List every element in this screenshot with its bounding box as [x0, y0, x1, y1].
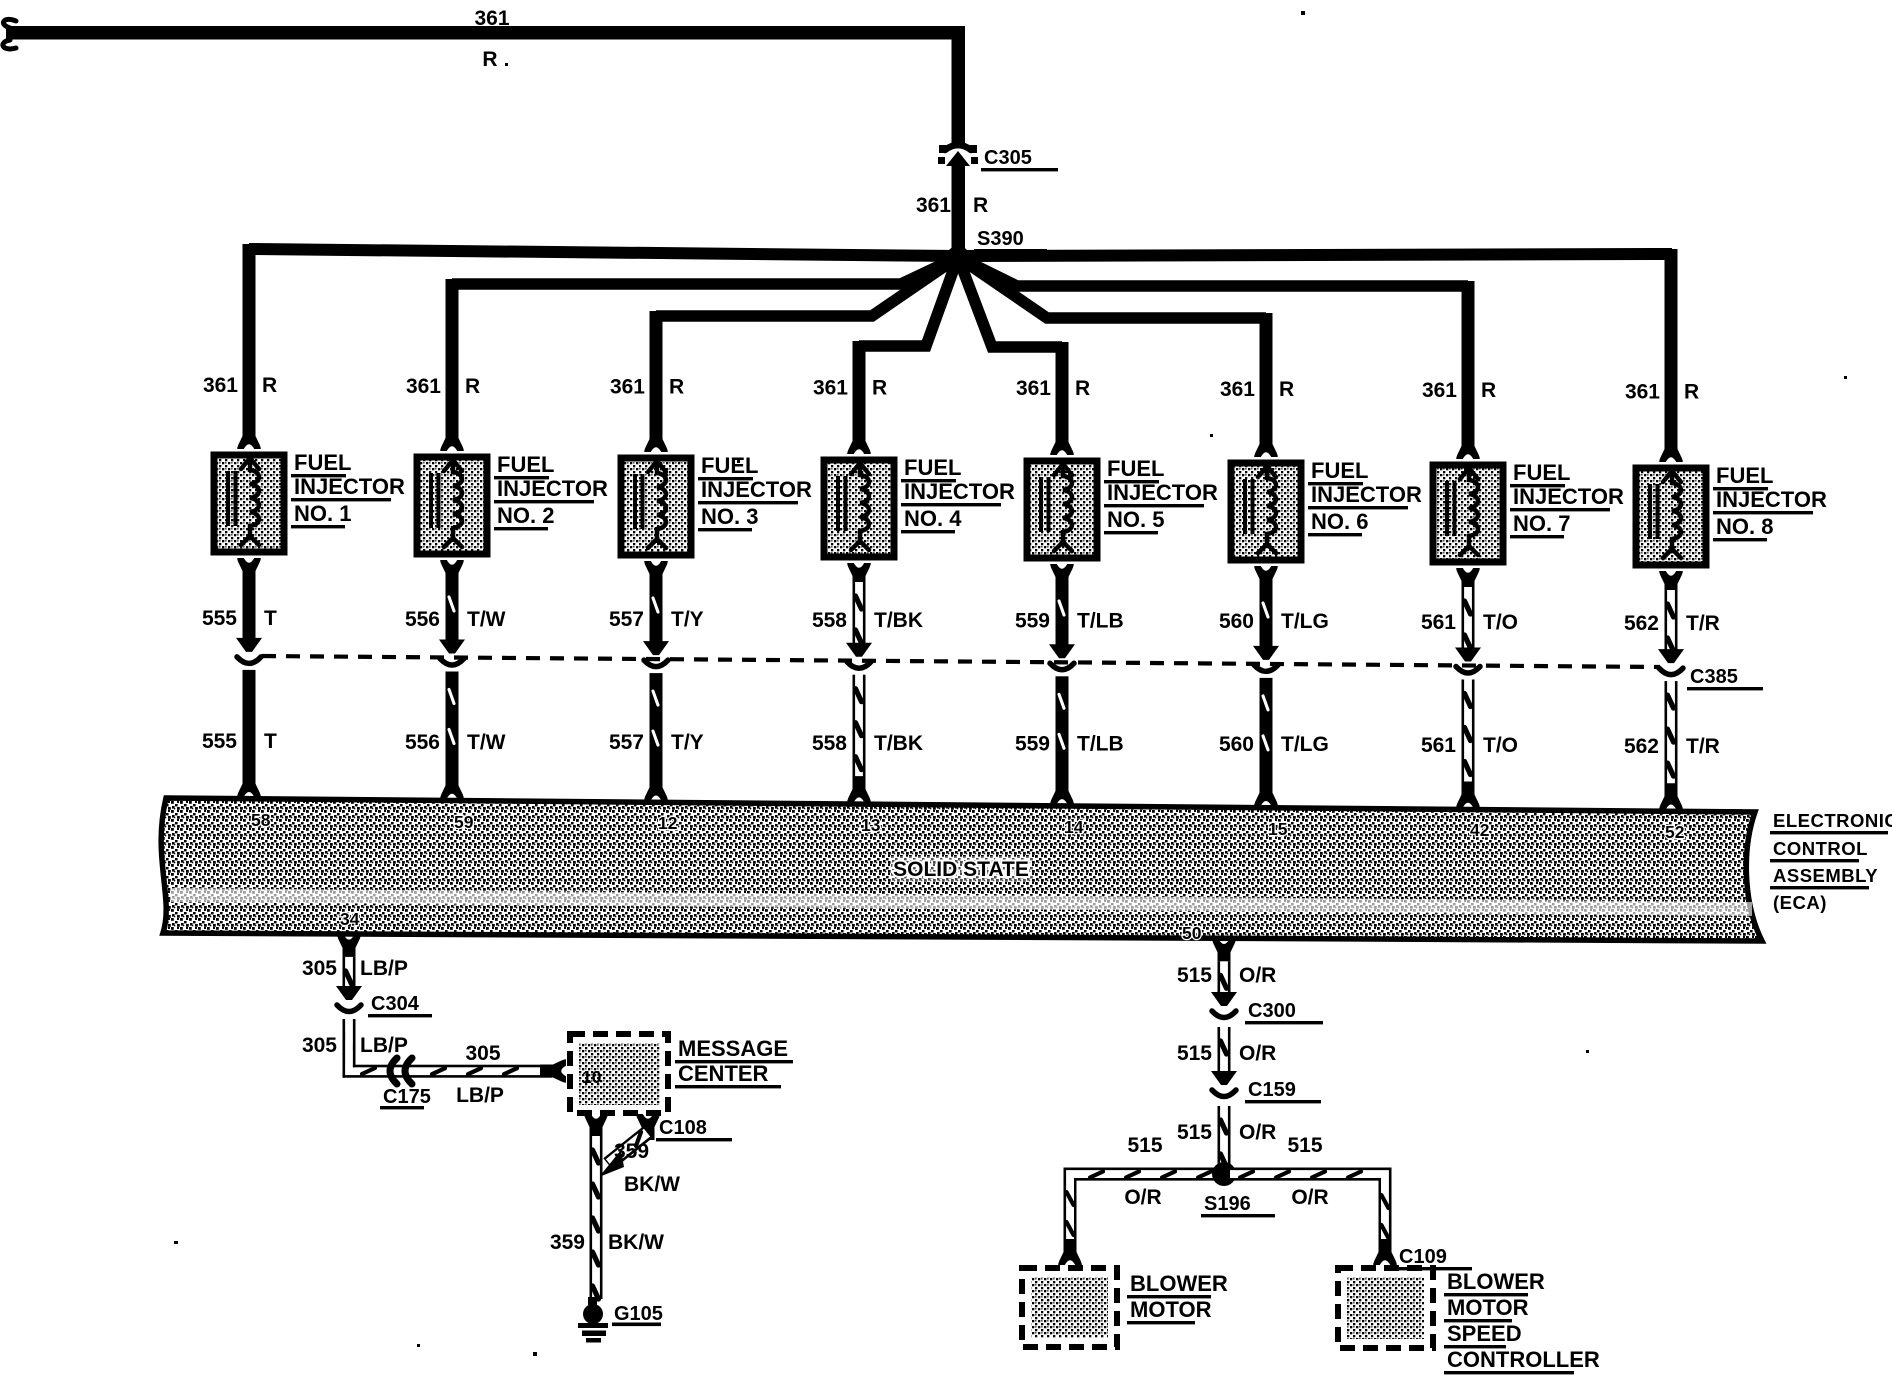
label 515 O/R (2) [1177, 1042, 1276, 1065]
entry foot at fuel injector 6 [1254, 431, 1278, 457]
svg-text:NO. 3: NO. 3 [701, 504, 758, 529]
wire 556 T/W upper segment [446, 579, 459, 642]
wire 555 T upper segment [243, 577, 256, 640]
svg-text:BLOWER: BLOWER [1130, 1271, 1228, 1296]
svg-text:T/LG: T/LG [1281, 733, 1329, 756]
svg-text:562: 562 [1624, 735, 1659, 758]
wire 359 BK/W diagonal from C108 [599, 1126, 653, 1177]
exit foot below fuel injector 4 [847, 563, 871, 589]
svg-text:NO. 8: NO. 8 [1716, 514, 1773, 539]
wire 361 R from C305 to S390 [952, 162, 966, 252]
svg-text:T/O: T/O [1483, 611, 1518, 634]
svg-text:CENTER: CENTER [678, 1061, 769, 1086]
label fuel injector no. 3 [698, 453, 812, 531]
label 305 (horizontal) [465, 1042, 500, 1065]
label 558 T/BK upper [812, 609, 923, 632]
svg-text:O/R: O/R [1239, 1121, 1276, 1144]
svg-text:515: 515 [1177, 964, 1212, 987]
message center box [570, 1034, 668, 1113]
label 361 R at injector 3 [610, 376, 684, 399]
svg-text:NO. 5: NO. 5 [1107, 507, 1164, 532]
wire 361 branch to injector 1 [243, 244, 959, 432]
svg-text:MESSAGE: MESSAGE [678, 1036, 788, 1061]
label O/R right branch [1291, 1186, 1328, 1209]
foot of wire 556 on ECA band [440, 773, 464, 799]
label fuel injector no. 4 [901, 455, 1015, 533]
svg-text:12: 12 [658, 813, 678, 833]
svg-text:361: 361 [474, 7, 509, 30]
svg-text:T/R: T/R [1686, 735, 1720, 758]
svg-text:361: 361 [813, 377, 848, 400]
wire 305 LB/P segment 2 (vertical) [343, 1021, 356, 1065]
svg-text:361: 361 [1016, 377, 1051, 400]
label 515 right branch [1287, 1134, 1322, 1157]
svg-text:O/R: O/R [1239, 1042, 1276, 1065]
svg-text:T: T [264, 607, 277, 630]
svg-text:560: 560 [1219, 733, 1254, 756]
svg-text:MOTOR: MOTOR [1447, 1295, 1529, 1320]
wire 562 T/R lower segment [1665, 681, 1678, 789]
svg-text:557: 557 [609, 731, 644, 754]
entry foot at fuel injector 1 [237, 423, 261, 449]
wire 558 T/BK upper segment [853, 582, 866, 645]
svg-text:305: 305 [302, 957, 337, 980]
label blower motor speed controller [1444, 1269, 1600, 1374]
svg-text:10: 10 [582, 1067, 602, 1087]
label 515 O/R (3) [1177, 1121, 1276, 1144]
svg-text:INJECTOR: INJECTOR [497, 476, 608, 501]
wire 558 T/BK lower segment [853, 675, 866, 782]
label 560 T/LG upper [1219, 610, 1329, 633]
svg-text:556: 556 [405, 731, 440, 754]
svg-text:INJECTOR: INJECTOR [904, 479, 1015, 504]
ECA pin 12 [658, 813, 678, 833]
wire 361 R vertical drop to C305 [952, 26, 966, 143]
dashed line C385 [262, 656, 1660, 667]
svg-text:LB/P: LB/P [360, 1034, 408, 1057]
label 557 T/Y lower [609, 731, 704, 754]
svg-text:557: 557 [609, 608, 644, 631]
label 361 R at injector 4 [813, 377, 887, 400]
wire 556 T/W lower segment [446, 672, 459, 779]
ECA pin 52 [1665, 822, 1685, 842]
message center pin 10 [582, 1067, 602, 1087]
label 562 T/R lower [1624, 735, 1720, 758]
connector C385 crossing at wire 561 [1455, 648, 1481, 674]
svg-text:BK/W: BK/W [608, 1231, 664, 1254]
label R (top) [482, 48, 497, 71]
svg-text:R: R [482, 48, 497, 71]
wire 361 branch to injector 3 [650, 257, 959, 436]
ECA pin 15 [1268, 819, 1288, 839]
wire 361 branch to injector 7 [958, 257, 1475, 442]
svg-text:T/LB: T/LB [1077, 609, 1124, 632]
svg-text:R: R [669, 376, 684, 399]
wire 561 T/O lower segment [1462, 680, 1475, 788]
ground G105 [578, 1297, 608, 1343]
svg-text:T/BK: T/BK [874, 732, 923, 755]
svg-text:FUEL: FUEL [1716, 463, 1773, 488]
label 305 LB/P (1) [302, 957, 408, 980]
label 556 T/W upper [405, 608, 506, 631]
foot of wire 558 on ECA band [847, 776, 871, 802]
label 555 T lower [202, 730, 277, 753]
svg-text:T/W: T/W [467, 731, 506, 754]
stub foot right under message center (C108) [636, 1114, 660, 1140]
connector C385 crossing at wire 562 [1658, 649, 1684, 675]
svg-text:558: 558 [812, 732, 847, 755]
svg-text:CONTROLLER: CONTROLLER [1447, 1347, 1600, 1372]
exit foot below fuel injector 5 [1050, 564, 1074, 590]
label SOLID STATE [890, 856, 1032, 882]
wire 361 branch to injector 8 [958, 249, 1678, 445]
exit foot below fuel injector 6 [1254, 566, 1278, 592]
wire 359 BK/W vertical [590, 1136, 603, 1299]
label G105 [612, 1303, 663, 1326]
wire 515 O/R segment 3 [1218, 1106, 1231, 1167]
connector C159 [1211, 1071, 1237, 1097]
svg-text:BK/W: BK/W [624, 1173, 680, 1196]
svg-text:FUEL: FUEL [1513, 460, 1570, 485]
svg-text:SOLID STATE: SOLID STATE [893, 858, 1029, 881]
connector C175 [390, 1058, 412, 1084]
svg-text:515: 515 [1287, 1134, 1322, 1157]
label 561 T/O upper [1421, 611, 1518, 634]
svg-text:C175: C175 [383, 1086, 431, 1108]
connector C300 [1211, 992, 1237, 1018]
svg-text:ASSEMBLY: ASSEMBLY [1773, 865, 1878, 886]
exit foot below fuel injector 3 [644, 561, 668, 587]
connector C385 crossing at wire 556 [439, 640, 465, 666]
label 359 (diagonal) [614, 1140, 649, 1163]
ECA pin 58 [251, 810, 271, 830]
wire 557 T/Y upper segment [650, 580, 663, 643]
exit foot below fuel injector 2 [440, 560, 464, 586]
wire 361 branch to injector 6 [958, 257, 1273, 441]
label R (mid) [973, 194, 988, 217]
entry foot at blower motor [1058, 1239, 1082, 1265]
label 555 T upper [202, 607, 277, 630]
svg-text:FUEL: FUEL [294, 450, 351, 475]
svg-text:MOTOR: MOTOR [1130, 1297, 1212, 1322]
label 361 R at injector 5 [1016, 377, 1090, 400]
wire 515 O/R left branch [1064, 1168, 1219, 1248]
svg-text:359: 359 [550, 1231, 585, 1254]
entry foot at fuel injector 4 [847, 428, 871, 454]
svg-text:305: 305 [465, 1042, 500, 1065]
wire 515 O/R segment 2 [1218, 1027, 1231, 1073]
ECA pin 13 [861, 815, 881, 835]
label BK/W (diagonal) [624, 1173, 680, 1196]
foot of wire 305 under ECA band [337, 935, 361, 961]
connector C385 crossing at wire 560 [1253, 646, 1279, 672]
label 559 T/LB lower [1015, 732, 1124, 755]
svg-text:C304: C304 [371, 993, 420, 1015]
label 305 LB/P (2) [302, 1034, 408, 1057]
svg-text:359: 359 [614, 1140, 649, 1163]
fuel injector no. 7 box [1433, 465, 1503, 562]
exit foot below fuel injector 8 [1659, 571, 1683, 597]
label 560 T/LG lower [1219, 733, 1329, 756]
foot of wire 562 on ECA band [1659, 783, 1683, 809]
wire 561 T/O upper segment [1462, 587, 1475, 650]
connector C385 crossing at wire 557 [643, 641, 669, 667]
foot of wire 515 under ECA band [1212, 939, 1236, 965]
svg-text:T/Y: T/Y [671, 608, 704, 631]
label C385 [1687, 666, 1763, 690]
svg-text:59: 59 [454, 812, 474, 832]
label O/R left branch [1124, 1186, 1161, 1209]
label fuel injector no. 6 [1308, 458, 1422, 536]
svg-text:515: 515 [1177, 1042, 1212, 1065]
foot of wire 561 on ECA band [1456, 782, 1480, 808]
svg-text:558: 558 [812, 609, 847, 632]
label LB/P (horizontal) [456, 1084, 504, 1107]
entry foot at fuel injector 2 [440, 425, 464, 451]
svg-text:T/Y: T/Y [671, 731, 704, 754]
svg-text:52: 52 [1665, 822, 1685, 842]
ECA band light streak [170, 888, 1752, 916]
svg-text:R: R [1075, 377, 1090, 400]
fuel injector no. 4 box [824, 460, 894, 557]
svg-text:FUEL: FUEL [497, 452, 554, 477]
label 361 R at injector 1 [203, 374, 277, 397]
blower motor speed controller box [1338, 1268, 1433, 1348]
exit foot below fuel injector 1 [237, 558, 261, 584]
svg-text:361: 361 [610, 376, 645, 399]
label C108 [656, 1117, 732, 1141]
wire 305 LB/P horizontal to message center [416, 1065, 552, 1078]
connector C305 [938, 145, 978, 166]
svg-text:LB/P: LB/P [456, 1084, 504, 1107]
svg-text:T/O: T/O [1483, 734, 1518, 757]
label C305 [981, 147, 1058, 171]
fuel injector no. 2 box [417, 457, 487, 554]
label blower motor [1127, 1271, 1228, 1324]
wire 515 O/R segment 1 [1218, 961, 1231, 994]
ECA pin 14 [1064, 817, 1084, 837]
svg-text:LB/P: LB/P [360, 957, 408, 980]
svg-text:NO. 4: NO. 4 [904, 506, 962, 531]
wire 305 LB/P elbow [343, 1019, 417, 1078]
svg-text:562: 562 [1624, 612, 1659, 635]
label 361 R at injector 2 [406, 375, 480, 398]
svg-text:INJECTOR: INJECTOR [1311, 482, 1422, 507]
label 361 R at injector 8 [1625, 381, 1699, 404]
wire 361 branch to injector 4 [853, 257, 959, 441]
wire 515 O/R right branch [1230, 1168, 1392, 1253]
foot of wire 560 on ECA band [1254, 780, 1278, 806]
label C109 [1396, 1246, 1472, 1270]
svg-text:42: 42 [1470, 820, 1490, 840]
svg-text:361: 361 [1220, 378, 1255, 401]
svg-text:C108: C108 [659, 1117, 707, 1139]
label 361 R at injector 7 [1422, 379, 1496, 402]
entry foot at fuel injector 5 [1050, 429, 1074, 455]
svg-text:14: 14 [1064, 817, 1084, 837]
label 515 O/R (1) [1177, 964, 1276, 987]
label 361 R at injector 6 [1220, 378, 1294, 401]
svg-text:C109: C109 [1399, 1246, 1447, 1268]
exit foot below fuel injector 7 [1456, 568, 1480, 594]
wire 555 T lower segment [243, 670, 256, 777]
label 556 T/W lower [405, 731, 506, 754]
label S390 [974, 228, 1047, 252]
svg-text:INJECTOR: INJECTOR [1107, 480, 1218, 505]
ECA pin 59 [454, 812, 474, 832]
wire 560 T/LG upper segment [1260, 585, 1273, 648]
wire 361 branch to injector 5 [958, 257, 1069, 442]
entry foot at message center [540, 1059, 566, 1083]
ECA pin 34 [340, 909, 360, 929]
connector C385 crossing at wire 559 [1049, 644, 1075, 670]
svg-text:556: 556 [405, 608, 440, 631]
svg-text:R: R [1684, 381, 1699, 404]
fuel injector no. 1 box [214, 455, 284, 552]
svg-text:R: R [465, 375, 480, 398]
wire break symbol at left edge [3, 19, 16, 49]
svg-text:R: R [262, 374, 277, 397]
svg-text:560: 560 [1219, 610, 1254, 633]
svg-text:R: R [973, 194, 988, 217]
svg-text:361: 361 [203, 374, 238, 397]
foot of wire 559 on ECA band [1050, 778, 1074, 804]
entry foot at fuel injector 8 [1659, 436, 1683, 462]
wire 559 T/LB lower segment [1056, 676, 1069, 784]
svg-text:(ECA): (ECA) [1773, 892, 1827, 913]
splice S196 node [1212, 1162, 1236, 1186]
label fuel injector no. 5 [1104, 456, 1218, 534]
svg-text:58: 58 [251, 810, 271, 830]
svg-text:FUEL: FUEL [1311, 458, 1368, 483]
svg-text:50: 50 [1182, 923, 1202, 943]
blower motor box [1022, 1268, 1117, 1347]
svg-text:G105: G105 [614, 1303, 663, 1325]
label fuel injector no. 2 [494, 452, 608, 530]
label 359 BK/W [550, 1231, 664, 1254]
svg-text:O/R: O/R [1124, 1186, 1161, 1209]
svg-text:T/LB: T/LB [1077, 732, 1124, 755]
label 558 T/BK lower [812, 732, 923, 755]
svg-text:13: 13 [861, 815, 881, 835]
label 515 left branch [1127, 1134, 1162, 1157]
svg-text:NO. 6: NO. 6 [1311, 509, 1368, 534]
svg-text:NO. 1: NO. 1 [294, 501, 351, 526]
svg-text:561: 561 [1421, 734, 1456, 757]
svg-text:INJECTOR: INJECTOR [701, 477, 812, 502]
svg-text:555: 555 [202, 730, 237, 753]
svg-text:361: 361 [916, 194, 951, 217]
label message center [675, 1036, 793, 1088]
connector C304 [336, 986, 362, 1012]
svg-text:R: R [1481, 379, 1496, 402]
svg-text:561: 561 [1421, 611, 1456, 634]
label 361 (mid) [916, 194, 951, 217]
svg-text:R: R [1279, 378, 1294, 401]
svg-text:555: 555 [202, 607, 237, 630]
svg-text:T/LG: T/LG [1281, 610, 1329, 633]
svg-text:361: 361 [1625, 381, 1660, 404]
label fuel injector no. 8 [1713, 463, 1827, 541]
label S196 [1201, 1193, 1275, 1217]
svg-text:15: 15 [1268, 819, 1288, 839]
wire 559 T/LB upper segment [1056, 583, 1069, 646]
wire 361 R top horizontal feed [6, 26, 965, 40]
label 557 T/Y upper [609, 608, 704, 631]
label 562 T/R upper [1624, 612, 1720, 635]
label fuel injector no. 7 [1510, 460, 1624, 538]
wire 557 T/Y lower segment [650, 673, 663, 780]
foot of wire 555 on ECA band [237, 771, 261, 797]
svg-text:C159: C159 [1248, 1079, 1296, 1101]
svg-text:O/R: O/R [1291, 1186, 1328, 1209]
svg-text:C300: C300 [1248, 1000, 1296, 1022]
label 361 (top) [474, 7, 509, 30]
svg-text:361: 361 [1422, 379, 1457, 402]
connector C385 crossing at wire 555 [236, 638, 262, 664]
label electronic control assembly [1770, 810, 1892, 913]
connector C385 crossing at wire 558 [846, 643, 872, 669]
foot of wire 557 on ECA band [644, 774, 668, 800]
svg-text:C385: C385 [1690, 666, 1738, 688]
svg-text:SPEED: SPEED [1447, 1321, 1522, 1346]
svg-text:559: 559 [1015, 732, 1050, 755]
ECA pin 50 [1182, 923, 1202, 943]
svg-text:FUEL: FUEL [701, 453, 758, 478]
wire 361 branch to injector 2 [446, 257, 959, 435]
svg-text:361: 361 [406, 375, 441, 398]
svg-text:NO. 7: NO. 7 [1513, 511, 1570, 536]
svg-text:INJECTOR: INJECTOR [1716, 487, 1827, 512]
svg-text:T/W: T/W [467, 608, 506, 631]
svg-text:559: 559 [1015, 609, 1050, 632]
svg-text:INJECTOR: INJECTOR [294, 474, 405, 499]
svg-text:C305: C305 [984, 147, 1032, 169]
splice S390 node [946, 246, 970, 270]
label C159 [1245, 1079, 1321, 1103]
stub foot left under message center [584, 1114, 608, 1140]
svg-text:ELECTRONIC: ELECTRONIC [1773, 810, 1892, 831]
connector C109 foot at blower motor speed controller [1373, 1239, 1397, 1265]
svg-text:BLOWER: BLOWER [1447, 1269, 1545, 1294]
label C304 [368, 993, 432, 1017]
fuel injector no. 5 box [1027, 461, 1097, 558]
svg-text:34: 34 [340, 909, 360, 929]
svg-text:515: 515 [1127, 1134, 1162, 1157]
wire 562 T/R upper segment [1665, 590, 1678, 651]
svg-text:S196: S196 [1204, 1193, 1251, 1215]
ECA pin 42 [1470, 820, 1490, 840]
label 559 T/LB upper [1015, 609, 1124, 632]
svg-text:FUEL: FUEL [1107, 456, 1164, 481]
svg-text:INJECTOR: INJECTOR [1513, 484, 1624, 509]
fuel injector no. 6 box [1231, 463, 1301, 560]
fuel injector no. 3 box [621, 458, 691, 555]
svg-text:NO. 2: NO. 2 [497, 503, 554, 528]
svg-text:R: R [872, 377, 887, 400]
label C175 [380, 1086, 431, 1109]
fuel injector no. 8 box [1636, 468, 1706, 565]
svg-text:FUEL: FUEL [904, 455, 961, 480]
wire 560 T/LG lower segment [1260, 678, 1273, 786]
svg-text:T/R: T/R [1686, 612, 1720, 635]
svg-text:S390: S390 [977, 228, 1024, 250]
svg-text:305: 305 [302, 1034, 337, 1057]
entry foot at fuel injector 3 [644, 426, 668, 452]
svg-text:CONTROL: CONTROL [1773, 838, 1868, 859]
ECA solid state band [161, 798, 1762, 941]
svg-text:T: T [264, 730, 277, 753]
